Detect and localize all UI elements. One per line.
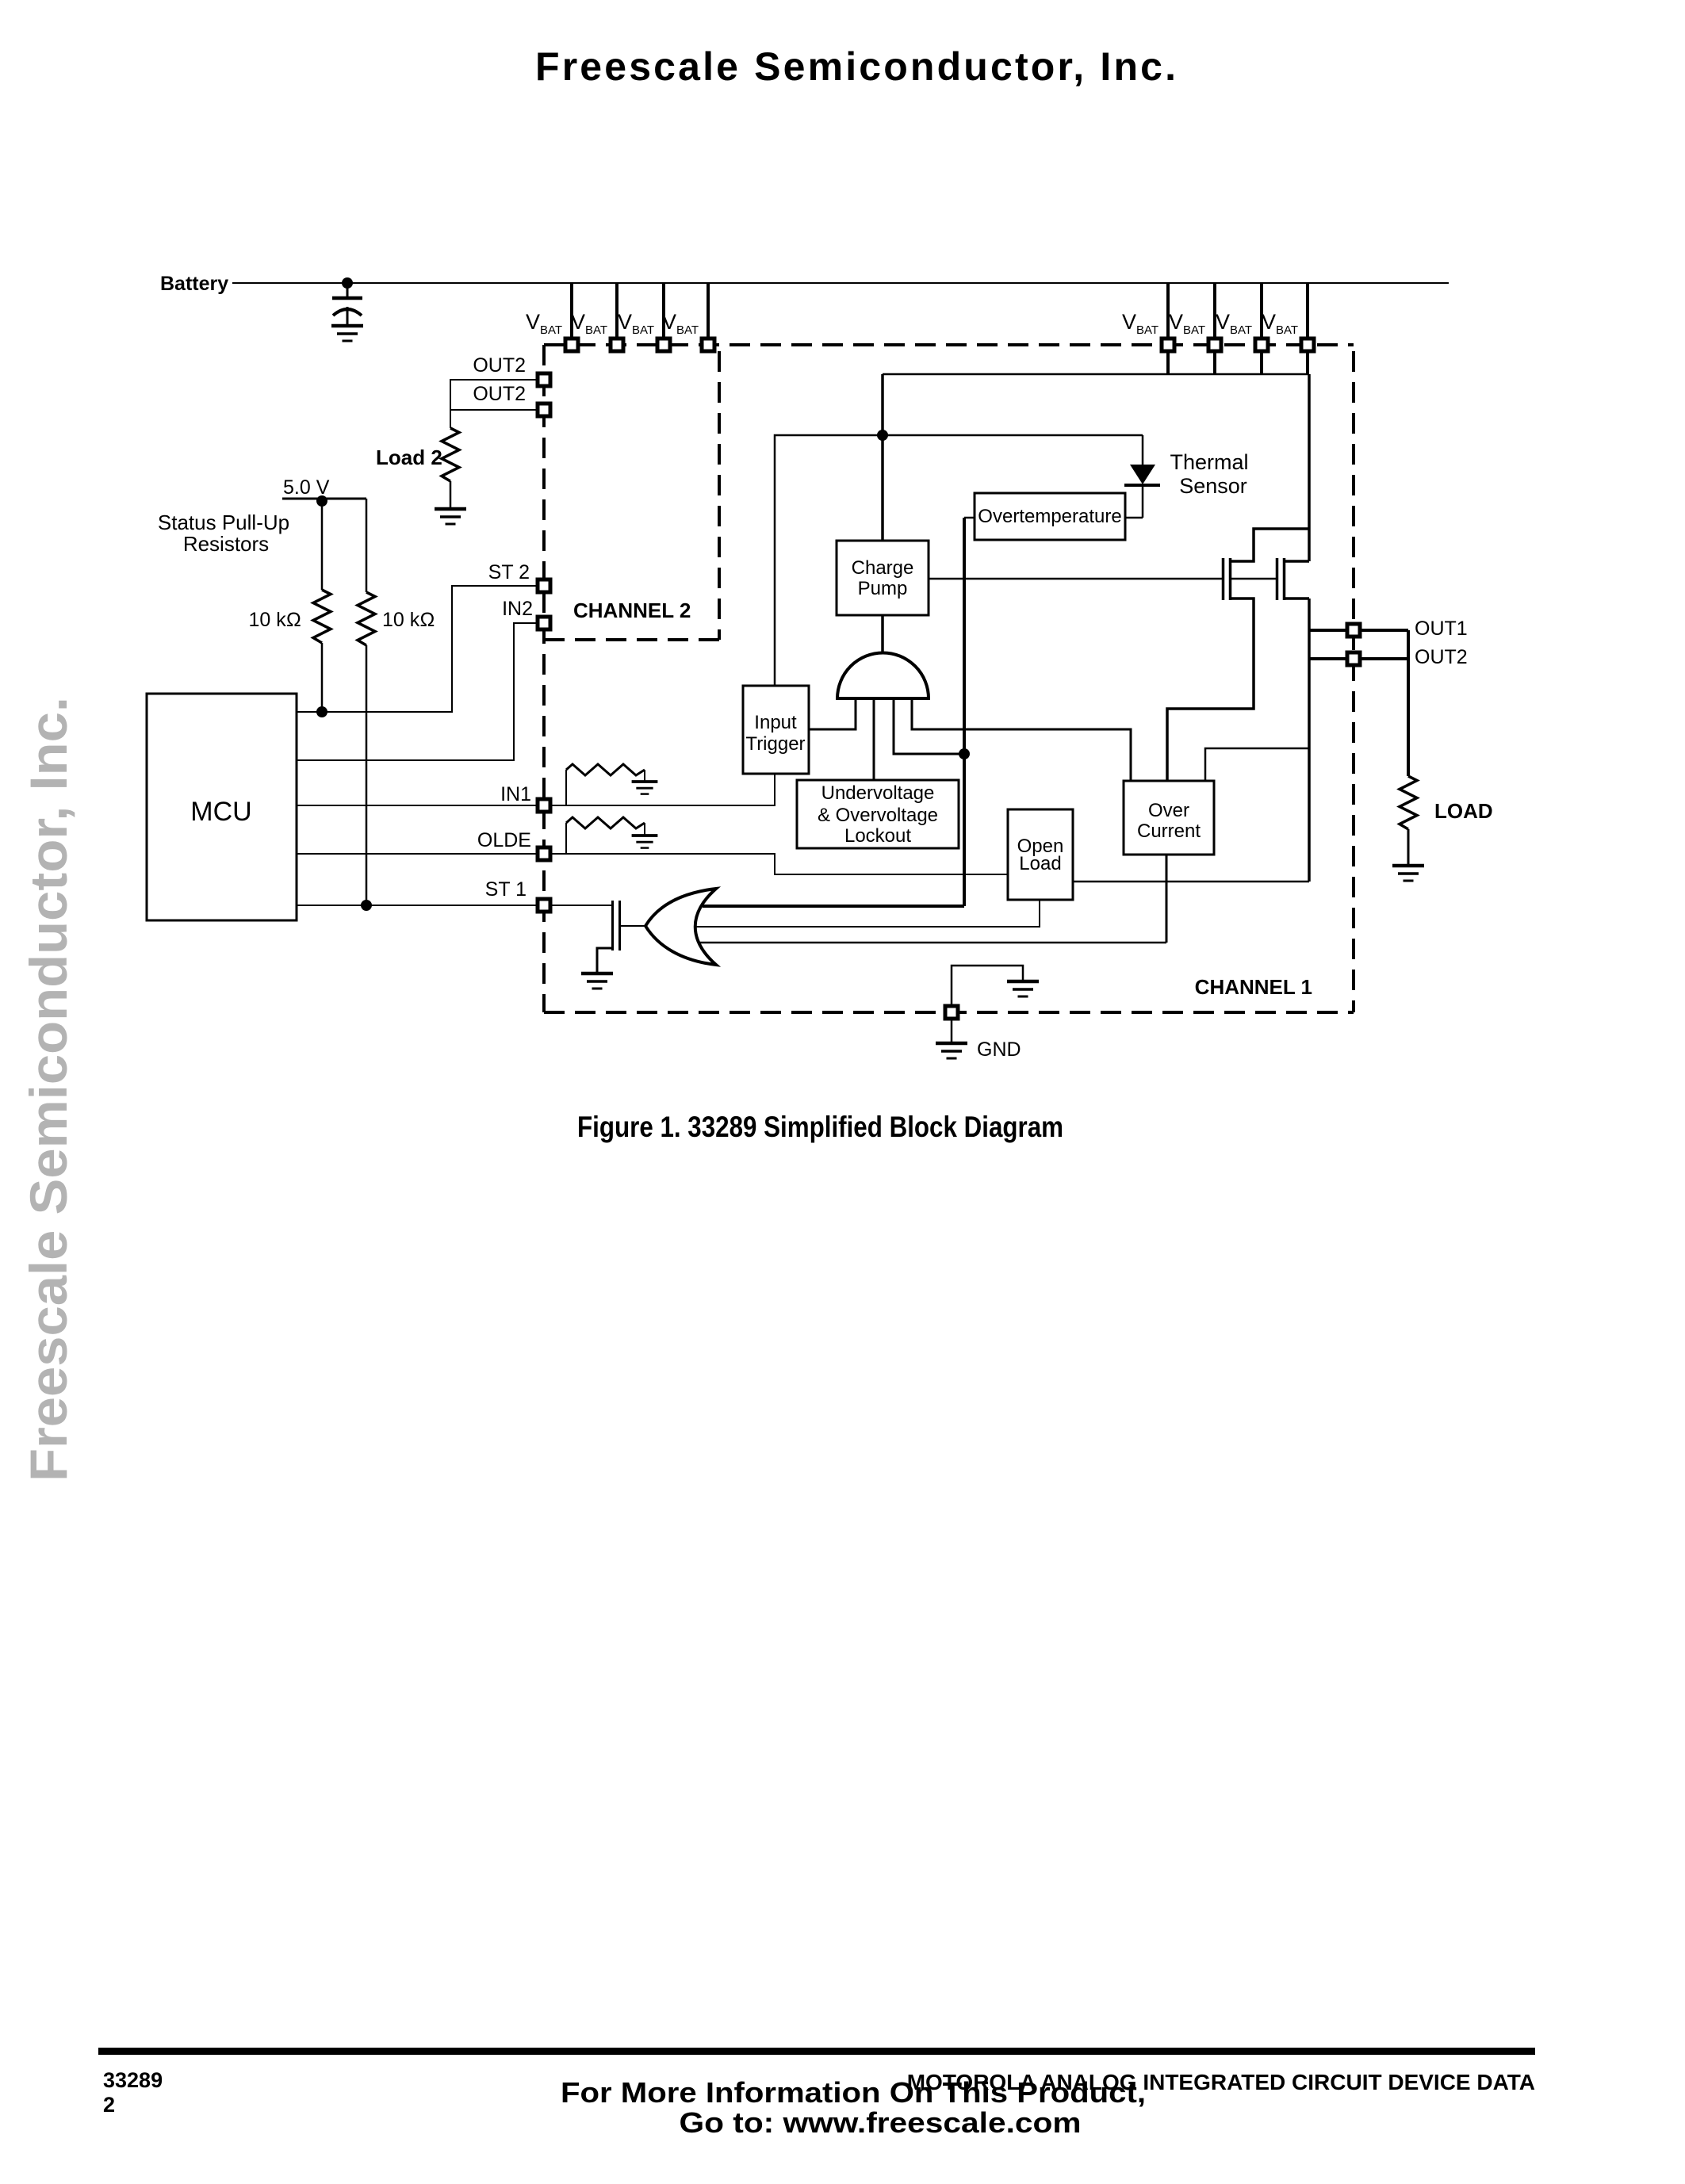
svg-text:Input: Input — [754, 712, 797, 733]
terminal VBAT ch2-2 — [611, 339, 623, 351]
terminal VBAT ch2-3 — [657, 339, 670, 351]
charge pump box — [837, 541, 929, 615]
svg-text:Freescale Semiconductor, Inc.: Freescale Semiconductor, Inc. — [19, 697, 78, 1482]
svg-text:Pump: Pump — [858, 578, 908, 599]
bus drop to charge pump — [881, 374, 884, 541]
GND wires — [952, 966, 1023, 1005]
VBAT feed wire ch1-1 — [1166, 283, 1170, 339]
R1 junction — [316, 706, 327, 717]
pull-up resistor R2 — [358, 499, 375, 905]
OLDE pulldown resistor — [566, 817, 645, 854]
channel boxes top dashed edge — [544, 343, 1354, 346]
channel 2 right dashed edge — [718, 351, 721, 640]
svg-text:10 kΩ: 10 kΩ — [249, 609, 301, 631]
output MOSFET Q1 — [1167, 529, 1309, 781]
charge pump output wire — [929, 578, 1222, 580]
svg-text:OLDE: OLDE — [477, 829, 531, 851]
svg-text:Undervoltage: Undervoltage — [821, 782, 935, 804]
ground (load 2) — [435, 509, 466, 524]
thermal diode feed wire — [1142, 435, 1144, 465]
IN2 wire — [297, 623, 538, 760]
OR input 3 wire — [699, 942, 1166, 944]
svg-text:CHANNEL 1: CHANNEL 1 — [1195, 975, 1312, 999]
terminal IN1 — [538, 799, 550, 812]
svg-text:OUT2: OUT2 — [473, 354, 526, 377]
open load sense wire — [1073, 881, 1309, 883]
load resistor — [1400, 776, 1417, 829]
VBAT terminal drop ch1-2 — [1213, 351, 1216, 374]
R2 junction — [361, 900, 372, 911]
VBAT feed wire ch2-3 — [662, 283, 665, 339]
svg-text:Charge: Charge — [852, 557, 914, 579]
ground (battery capacitor) — [331, 326, 363, 341]
OLDE wire — [297, 853, 538, 855]
ground (internal) — [1007, 981, 1039, 996]
ST2 wire — [297, 586, 538, 712]
svg-text:Go to: www.freescale.com: Go to: www.freescale.com — [680, 2106, 1082, 2139]
OUT1 wire — [1309, 629, 1408, 632]
ST1 inner wire — [550, 905, 611, 906]
svg-text:10 kΩ: 10 kΩ — [382, 609, 435, 631]
svg-text:Current: Current — [1137, 820, 1201, 842]
VBAT terminal drop ch1-3 — [1260, 351, 1263, 374]
terminal OUT1 — [1347, 624, 1360, 637]
terminal VBAT ch1-3 — [1255, 339, 1268, 351]
terminal ST2 — [538, 579, 550, 592]
load 2 ground wire — [450, 481, 452, 508]
terminal GND — [945, 1006, 958, 1019]
IN1 wire — [297, 805, 538, 806]
ground (OLDE pulldown) — [632, 836, 658, 848]
ST1 wire — [297, 905, 538, 906]
OUT2 wire b — [450, 409, 538, 411]
OR input 1 wire — [703, 905, 964, 908]
terminal VBAT ch1-2 — [1208, 339, 1221, 351]
ground (GND pin) — [936, 1043, 967, 1058]
svg-text:OUT1: OUT1 — [1415, 618, 1468, 640]
undervoltage lockout box — [797, 780, 959, 848]
terminal ST1 — [538, 899, 550, 912]
terminal VBAT ch2-1 — [565, 339, 578, 351]
VBAT feed wire ch1-2 — [1213, 283, 1216, 339]
svg-text:Status Pull-Up: Status Pull-Up — [158, 511, 289, 534]
input trigger box — [743, 686, 809, 774]
channel 1 right dashed edge — [1352, 351, 1355, 1012]
overtemp junction — [959, 748, 970, 759]
svg-text:For More Information On This P: For More Information On This Product, — [561, 2076, 1146, 2109]
battery rail wire — [232, 282, 1449, 284]
svg-text:OUT2: OUT2 — [473, 383, 526, 405]
Q2 source wire — [1308, 599, 1311, 882]
svg-text:Figure 1. 33289 Simplified Blo: Figure 1. 33289 Simplified Block Diagram — [577, 1111, 1063, 1143]
svg-text:Load 2: Load 2 — [376, 446, 442, 469]
OR input 2 wire — [695, 900, 1040, 927]
svg-text:& Overvoltage: & Overvoltage — [818, 805, 938, 826]
over current sense wire — [1205, 748, 1309, 781]
AND gate U1 — [837, 652, 929, 698]
MCU box — [147, 694, 297, 920]
svg-text:OUT2: OUT2 — [1415, 646, 1468, 668]
ground (IN1 pulldown) — [632, 782, 658, 794]
svg-text:2: 2 — [103, 2093, 115, 2117]
IN1 inner wire — [550, 774, 775, 805]
VBAT feed wire ch2-1 — [570, 283, 573, 339]
svg-text:5.0 V: 5.0 V — [283, 476, 330, 499]
svg-text:Lockout: Lockout — [844, 825, 911, 847]
svg-text:Thermal: Thermal — [1170, 450, 1248, 474]
VBAT feed wire ch1-4 — [1306, 283, 1309, 339]
footer rule — [98, 2048, 1535, 2055]
ground (load) — [1392, 866, 1424, 881]
svg-text:MCU: MCU — [190, 797, 251, 827]
OR gate U2 — [645, 889, 716, 965]
AND stub3 wire — [894, 698, 961, 754]
VBAT terminal drop ch1-4 — [1306, 351, 1309, 374]
AND stub2 wire — [873, 698, 875, 780]
filter capacitor C1 — [332, 283, 362, 326]
bus junction — [877, 430, 888, 441]
svg-text:Trigger: Trigger — [745, 733, 805, 755]
terminal OLDE — [538, 847, 550, 860]
status MOSFET Q3 — [597, 901, 645, 973]
VBAT feed wire ch1-3 — [1260, 283, 1263, 339]
svg-text:ST 2: ST 2 — [488, 561, 530, 583]
ground (status MOSFET) — [581, 973, 613, 989]
OLDE inner wire — [550, 854, 1008, 874]
charge pump input wire — [881, 614, 884, 652]
OUT2 wire a — [450, 380, 538, 428]
over current bottom wire — [1166, 855, 1168, 943]
svg-text:Resistors: Resistors — [183, 532, 269, 556]
over current box — [1124, 781, 1214, 855]
svg-text:CHANNEL 2: CHANNEL 2 — [573, 599, 691, 622]
load feed wire — [1407, 630, 1410, 776]
terminal OUT2 a — [538, 373, 550, 386]
VBAT bus ch1 — [883, 373, 1309, 376]
terminal OUT2 right — [1347, 652, 1360, 665]
thermal sensor diode — [1130, 465, 1155, 484]
terminal OUT2 b — [538, 404, 550, 416]
terminal VBAT ch2-4 — [702, 339, 714, 351]
channel left dashed edge — [542, 345, 546, 1012]
terminal VBAT ch1-4 — [1301, 339, 1314, 351]
load 2 resistor — [442, 428, 459, 481]
VBAT feed wire ch2-4 — [707, 283, 710, 339]
svg-text:LOAD: LOAD — [1434, 799, 1493, 823]
pull-up resistor R1 — [313, 499, 331, 712]
battery rail junction — [342, 277, 353, 289]
AND stub1 wire — [809, 698, 856, 729]
IN1 pulldown resistor — [566, 764, 645, 805]
terminal IN2 — [538, 617, 550, 629]
svg-text:33289: 33289 — [103, 2068, 163, 2092]
terminal VBAT ch1-1 — [1162, 339, 1174, 351]
channel 2 bottom dashed edge — [544, 638, 719, 641]
svg-text:Freescale Semiconductor, Inc.: Freescale Semiconductor, Inc. — [535, 44, 1176, 89]
svg-text:Sensor: Sensor — [1179, 474, 1247, 498]
5.0V rail — [282, 498, 366, 500]
svg-text:IN1: IN1 — [500, 783, 531, 805]
load ground wire — [1407, 829, 1410, 865]
open load box — [1008, 809, 1073, 900]
svg-text:Over: Over — [1148, 800, 1189, 821]
Q2 drain wire — [1308, 374, 1311, 561]
input trigger feed wire — [775, 435, 1143, 686]
5.0V junction — [316, 495, 327, 507]
VBAT terminal drop ch1-1 — [1166, 351, 1170, 374]
svg-text:Battery: Battery — [160, 273, 228, 295]
svg-text:Overtemperature: Overtemperature — [978, 506, 1121, 527]
svg-text:GND: GND — [977, 1038, 1021, 1061]
AND stub4 wire — [912, 698, 1131, 781]
OUT2 wire — [1309, 657, 1408, 660]
output MOSFET Q2 — [1277, 558, 1310, 600]
overtemperature box — [975, 493, 1125, 540]
VBAT feed wire ch2-2 — [615, 283, 618, 339]
svg-text:Load: Load — [1019, 853, 1061, 874]
svg-text:ST 1: ST 1 — [485, 878, 527, 901]
svg-text:IN2: IN2 — [502, 598, 533, 620]
overtemperature sense wire — [963, 518, 966, 906]
channel 1 bottom dashed edge — [544, 1011, 1354, 1014]
